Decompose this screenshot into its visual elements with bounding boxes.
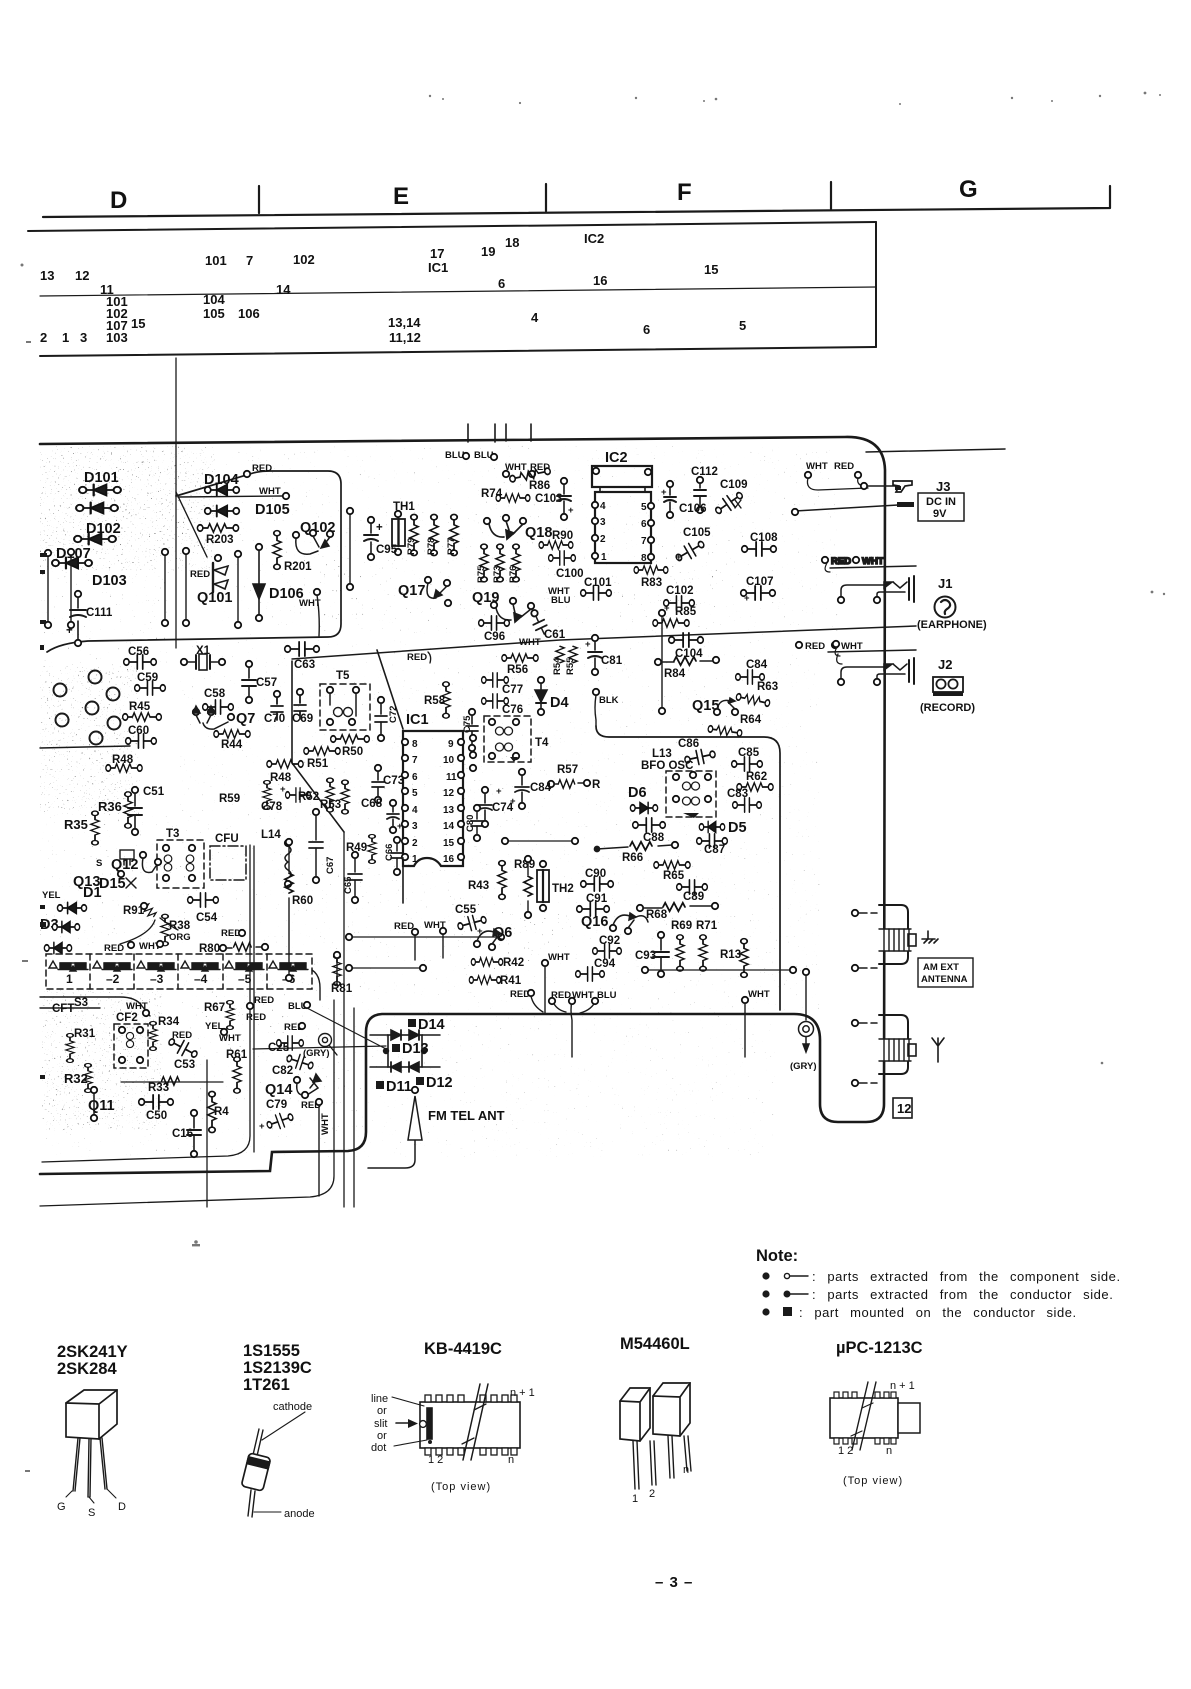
svg-text:R44: R44 (221, 739, 243, 751)
connector J2 record jack (828, 641, 916, 685)
svg-text:11: 11 (446, 772, 457, 783)
svg-text:5: 5 (641, 502, 647, 513)
svg-text:R85: R85 (675, 606, 697, 618)
svg-text:(Top view): (Top view) (431, 1481, 491, 1493)
svg-text:C56: C56 (128, 646, 149, 658)
label D11 (376, 1081, 384, 1089)
svg-text:CFT: CFT (52, 1003, 74, 1015)
svg-text:: parts extracted from the co: : parts extracted from the component sid… (812, 1269, 1121, 1284)
svg-text:R45: R45 (129, 701, 151, 713)
transformer L13 BFO coil (666, 771, 716, 818)
resistor R42 (471, 958, 502, 966)
legend bullet 3 (762, 1308, 769, 1315)
diode bridge D11-D14 (370, 1030, 440, 1072)
svg-text:ORG: ORG (169, 932, 191, 943)
wire thin bottom line (42, 845, 250, 1162)
svg-text:anode: anode (284, 1508, 315, 1520)
wire vertical x207 (206, 1060, 208, 1207)
svg-text:dot: dot (371, 1442, 386, 1454)
resistor R66 (594, 842, 678, 852)
ruler tick E/F (545, 184, 547, 211)
svg-text:WHT: WHT (806, 461, 828, 472)
svg-text:R71: R71 (696, 920, 718, 932)
svg-text:D6: D6 (628, 785, 647, 801)
svg-text:7: 7 (246, 253, 253, 268)
package M54460L drawing (620, 1383, 691, 1489)
svg-text:1 2: 1 2 (838, 1445, 853, 1457)
svg-text:C77: C77 (502, 684, 523, 696)
diode D5 (699, 822, 724, 833)
label D12 (416, 1077, 424, 1085)
svg-text:8: 8 (641, 553, 647, 564)
svg-text:1: 1 (62, 330, 69, 345)
svg-text:C78: C78 (261, 801, 283, 813)
wire slant to Q101 (176, 492, 207, 557)
resistor R77 (450, 514, 458, 555)
svg-text:12: 12 (75, 268, 89, 283)
svg-text:D101: D101 (84, 470, 119, 486)
svg-text:C57: C57 (256, 677, 277, 689)
svg-text:15: 15 (131, 316, 145, 331)
resistor R73 (496, 544, 504, 582)
svg-text:Q7: Q7 (236, 711, 255, 727)
svg-text:D105: D105 (255, 502, 290, 518)
svg-text:J2: J2 (938, 657, 952, 672)
package uPC-1213C drawing (830, 1382, 920, 1450)
svg-text:(Top view): (Top view) (843, 1475, 903, 1487)
wire verticals left of island (48, 555, 71, 622)
svg-text:RED: RED (254, 995, 274, 1006)
svg-text:C53: C53 (174, 1059, 195, 1071)
resistor R48b (267, 760, 303, 768)
svg-text:S3: S3 (74, 997, 88, 1009)
svg-text:T4: T4 (535, 737, 549, 749)
resistor R65 (654, 861, 690, 869)
svg-text:Q18: Q18 (525, 525, 552, 541)
wire vertical x662 (661, 616, 663, 708)
KB-4419C pin1 callouts (371, 1393, 427, 1454)
svg-text:BLU: BLU (597, 990, 617, 1001)
svg-text:C102: C102 (666, 585, 694, 597)
svg-text:2: 2 (412, 838, 418, 849)
svg-text:WHT: WHT (748, 989, 770, 1000)
svg-text:D: D (110, 187, 127, 214)
svg-text:C54: C54 (196, 912, 218, 924)
svg-text:RED: RED (407, 652, 427, 663)
resistor R78 (430, 514, 438, 555)
svg-text:R41: R41 (500, 975, 522, 987)
svg-text:Q17: Q17 (398, 583, 425, 599)
capacitor C50 (139, 1095, 174, 1109)
wire rows mid (346, 934, 796, 1057)
wire under strip (40, 970, 320, 1016)
svg-text:C112: C112 (691, 466, 718, 478)
capacitor C88 (633, 818, 666, 832)
svg-text:C100: C100 (556, 568, 584, 580)
svg-text:13: 13 (443, 805, 455, 816)
wire lower thin line (40, 1000, 334, 1206)
svg-text:12: 12 (443, 788, 455, 799)
capacitor C87 (697, 834, 728, 848)
svg-text:R32: R32 (64, 1071, 88, 1086)
svg-text:R83: R83 (641, 577, 662, 589)
svg-text:C63: C63 (294, 659, 315, 671)
svg-text:R62: R62 (746, 771, 767, 783)
svg-text:F: F (677, 179, 692, 206)
svg-text:102: 102 (293, 252, 315, 267)
svg-text:Q16: Q16 (581, 914, 608, 930)
svg-text:R54: R54 (552, 657, 563, 675)
svg-text:15: 15 (704, 262, 718, 277)
svg-text:R34: R34 (158, 1016, 180, 1028)
svg-text:6: 6 (412, 772, 418, 783)
svg-text:R53: R53 (320, 799, 341, 811)
svg-text:CF2: CF2 (116, 1012, 138, 1024)
svg-text:1: 1 (412, 854, 418, 865)
scan toner noise patches (40, 446, 740, 1130)
svg-text:R76: R76 (508, 566, 519, 583)
diode D101b (76, 503, 118, 514)
capacitor C95 (364, 517, 383, 560)
svg-text:16: 16 (593, 273, 607, 288)
svg-text:D5: D5 (728, 820, 747, 836)
svg-text:RED: RED (172, 1030, 192, 1041)
svg-text:L14: L14 (261, 829, 281, 841)
svg-text:R: R (592, 779, 601, 791)
svg-text:C86: C86 (678, 738, 699, 750)
svg-text:101: 101 (205, 253, 227, 268)
svg-text:RED: RED (246, 1012, 266, 1023)
svg-text:R73: R73 (492, 566, 503, 583)
svg-text:R48: R48 (270, 772, 292, 784)
svg-text:C70: C70 (264, 713, 285, 725)
capacitor C54 (188, 893, 219, 907)
svg-text:C84: C84 (746, 659, 768, 671)
label D14 (408, 1019, 416, 1027)
table top edge (28, 222, 876, 231)
svg-text:RED: RED (190, 569, 210, 580)
svg-text:T3: T3 (166, 828, 179, 840)
svg-text:–2: –2 (106, 972, 120, 986)
resistor R84 (655, 657, 719, 665)
svg-text:2: 2 (600, 534, 606, 545)
svg-text:R65: R65 (663, 870, 685, 882)
svg-text:–4: –4 (194, 972, 208, 986)
svg-text:RED: RED (104, 943, 124, 954)
svg-text:BLK: BLK (599, 695, 619, 706)
svg-text:C51: C51 (143, 786, 165, 798)
svg-text:WHT: WHT (259, 486, 281, 497)
board top edge and right edge (40, 437, 885, 1174)
svg-text:14: 14 (443, 821, 455, 832)
svg-text:FM TEL ANT: FM TEL ANT (428, 1108, 505, 1123)
svg-text:C107: C107 (746, 576, 774, 588)
svg-text:Note:: Note: (756, 1247, 798, 1265)
svg-text:cathode: cathode (273, 1401, 312, 1413)
svg-text:6: 6 (643, 322, 650, 337)
svg-text:R203: R203 (206, 534, 234, 546)
svg-text:+: + (496, 786, 502, 797)
capacitor C57 (242, 661, 256, 703)
svg-text:IC2: IC2 (605, 450, 628, 466)
AM EXT ANTENNA label box (918, 958, 973, 987)
svg-text:8: 8 (412, 739, 418, 750)
capacitor C89 (677, 880, 708, 894)
svg-text:or: or (377, 1430, 387, 1442)
svg-text:AM EXT: AM EXT (923, 962, 959, 973)
svg-text:R51: R51 (307, 758, 329, 770)
svg-text:R59: R59 (219, 793, 240, 805)
svg-text:R31: R31 (74, 1028, 96, 1040)
connector J3 DC IN 9V (792, 481, 964, 521)
svg-text:C55: C55 (455, 904, 477, 916)
label D13 (392, 1044, 400, 1052)
capacitor C111 (66, 591, 86, 646)
ruler line (43, 186, 1110, 217)
svg-text:+: + (568, 505, 574, 516)
svg-text:6: 6 (498, 276, 505, 291)
svg-text:G: G (959, 176, 978, 203)
ground symbol (922, 931, 938, 943)
antenna symbol (932, 1038, 944, 1062)
svg-text:1T261: 1T261 (243, 1376, 290, 1394)
svg-text:C88: C88 (643, 832, 665, 844)
svg-text:15: 15 (443, 838, 455, 849)
dust specks (21, 92, 1166, 1472)
svg-text:R79: R79 (406, 538, 417, 555)
svg-text:R13: R13 (720, 949, 741, 961)
ruler tick D/E (258, 186, 260, 213)
svg-text:R60: R60 (292, 895, 313, 907)
svg-text:7: 7 (641, 536, 647, 547)
svg-text:R84: R84 (664, 668, 686, 680)
diode D4 (535, 677, 547, 715)
svg-text:T5: T5 (336, 670, 350, 682)
svg-text:C68: C68 (361, 798, 383, 810)
svg-text:11,12: 11,12 (389, 330, 421, 345)
svg-text:IC2: IC2 (584, 231, 604, 246)
svg-text:J1: J1 (938, 576, 952, 591)
resistor R75 (480, 544, 488, 582)
svg-text:105: 105 (203, 306, 225, 321)
svg-text:106: 106 (238, 306, 260, 321)
wire BLU slant to bridge (253, 1008, 388, 1050)
svg-text:1S1555: 1S1555 (243, 1342, 300, 1360)
svg-text:n: n (886, 1445, 892, 1457)
svg-text:CFU: CFU (215, 833, 239, 845)
svg-text:C96: C96 (484, 631, 505, 643)
svg-text:R66: R66 (622, 852, 643, 864)
svg-text:R63: R63 (757, 681, 778, 693)
ruler tick F/G (830, 182, 832, 209)
svg-text:D102: D102 (86, 521, 121, 537)
island outline around D104 group (47, 471, 341, 652)
svg-text:104: 104 (203, 292, 225, 307)
diode D106 (253, 544, 265, 621)
capacitor C53 (166, 1035, 200, 1062)
svg-text:YEL: YEL (42, 890, 61, 901)
svg-text:WHT: WHT (862, 556, 884, 567)
resistor R55 (569, 646, 577, 663)
svg-text:R69: R69 (671, 920, 692, 932)
svg-text:D11: D11 (386, 1079, 412, 1095)
svg-text:C82: C82 (272, 1065, 293, 1077)
svg-text:(RECORD): (RECORD) (920, 702, 975, 714)
svg-text:C94: C94 (594, 958, 616, 970)
svg-text:+: + (676, 552, 682, 563)
wire outline BFO region (596, 726, 780, 1010)
svg-text:R201: R201 (284, 561, 312, 573)
svg-text:ANTENNA: ANTENNA (921, 974, 968, 985)
svg-text:(GRY): (GRY) (303, 1048, 330, 1059)
svg-text:C103: C103 (535, 493, 563, 505)
wire row above R43 (508, 840, 572, 842)
svg-text:+: + (280, 784, 286, 795)
svg-text:12: 12 (897, 1101, 911, 1116)
svg-text:14: 14 (276, 282, 291, 297)
svg-text:L13: L13 (652, 748, 672, 760)
svg-text:C91: C91 (586, 893, 608, 905)
svg-text:C76: C76 (502, 704, 523, 716)
svg-text:R55: R55 (565, 657, 576, 675)
svg-text:C61: C61 (544, 629, 566, 641)
capacitor C63 (285, 642, 320, 656)
svg-text:D103: D103 (92, 573, 127, 589)
svg-text:C90: C90 (585, 868, 606, 880)
svg-text:16: 16 (443, 854, 455, 865)
resistor R203 (197, 524, 238, 532)
svg-text:D15: D15 (99, 876, 126, 892)
svg-text:–5: –5 (238, 972, 252, 986)
svg-text:4: 4 (412, 805, 418, 816)
pad circles left area (54, 671, 121, 745)
svg-text:Q11: Q11 (88, 1098, 115, 1114)
package diode drawing (241, 1401, 314, 1520)
svg-text:C105: C105 (683, 527, 711, 539)
svg-text:(GRY): (GRY) (790, 1061, 817, 1072)
wire GRY (803, 969, 809, 975)
svg-text:or: or (377, 1405, 387, 1417)
svg-text:+: + (259, 1121, 265, 1132)
svg-text:WHT: WHT (219, 1033, 241, 1044)
wire stubs above board edge (468, 424, 531, 442)
svg-text:: parts extracted from the co: : parts extracted from the conductor sid… (812, 1287, 1113, 1302)
resistor R201 (273, 531, 281, 570)
antenna FM TEL ANT (412, 1087, 418, 1093)
capacitor C81 (585, 635, 602, 675)
svg-text:1 2: 1 2 (428, 1454, 443, 1466)
svg-text:µPC-1213C: µPC-1213C (836, 1339, 923, 1357)
capacitor C78 (286, 788, 311, 802)
svg-text:C58: C58 (204, 688, 226, 700)
svg-text:RED: RED (252, 463, 272, 474)
svg-text:3: 3 (80, 330, 87, 345)
table right edge (875, 222, 877, 347)
AM external antenna coil (852, 905, 938, 971)
wire verticals in island (165, 514, 350, 622)
record icon (933, 677, 963, 696)
svg-text:C84: C84 (530, 782, 552, 794)
svg-text:R43: R43 (468, 880, 489, 892)
svg-text:C80: C80 (465, 815, 476, 832)
svg-text:6: 6 (641, 519, 647, 530)
wire outline right of T5 (377, 650, 403, 903)
transformer T4 (484, 716, 531, 762)
svg-text:n + 1: n + 1 (890, 1380, 915, 1392)
wire WHT under D104 (178, 496, 283, 497)
svg-text:n: n (508, 1454, 514, 1466)
svg-text:WHT: WHT (320, 1113, 331, 1135)
resistor R76 (512, 544, 520, 582)
svg-text:R42: R42 (503, 957, 524, 969)
svg-text:2: 2 (40, 330, 47, 345)
svg-text:D104: D104 (204, 472, 239, 488)
svg-text:18: 18 (505, 235, 519, 250)
wire vertical from table to board (175, 358, 177, 648)
svg-text:C111: C111 (86, 607, 113, 619)
svg-text:Q101: Q101 (197, 590, 232, 606)
svg-text:R75: R75 (476, 565, 487, 583)
svg-text:C106: C106 (679, 503, 707, 515)
svg-text:KB-4419C: KB-4419C (424, 1340, 502, 1358)
resistor R86 (509, 467, 551, 484)
svg-text:IC1: IC1 (428, 260, 448, 275)
svg-text:+: + (661, 487, 667, 498)
svg-text:Q14: Q14 (265, 1082, 292, 1098)
svg-text:RED: RED (834, 461, 854, 472)
svg-text:R77: R77 (446, 538, 457, 555)
svg-text:C74: C74 (492, 802, 514, 814)
resistor R79 (410, 514, 418, 555)
svg-text:R67: R67 (204, 1002, 225, 1014)
label RED WHT mid (796, 642, 802, 648)
svg-text:J3: J3 (936, 479, 950, 494)
svg-text:WHT: WHT (841, 641, 863, 652)
svg-text:+: + (585, 639, 591, 650)
wire top right line to J3 (866, 449, 1005, 452)
svg-text:9: 9 (448, 739, 454, 750)
svg-text:BLU: BLU (445, 450, 465, 461)
capacitor C96 (479, 616, 510, 630)
svg-text:C79: C79 (266, 1099, 287, 1111)
svg-text:TH2: TH2 (552, 883, 574, 895)
svg-text:: part mounted on the conduct: : part mounted on the conductor side. (799, 1305, 1077, 1320)
legend bullet 2 (762, 1290, 769, 1297)
wire mid horizontal line across board (292, 626, 916, 659)
svg-text:n + 1: n + 1 (510, 1387, 535, 1399)
svg-text:S: S (96, 858, 102, 869)
svg-text:R81: R81 (331, 983, 353, 995)
svg-text:R36: R36 (98, 799, 122, 814)
svg-text:C65: C65 (343, 876, 354, 894)
resistor R38 (161, 914, 169, 945)
svg-text:2SK284: 2SK284 (57, 1360, 117, 1378)
svg-text:n: n (683, 1464, 689, 1476)
thermistor TH2 (537, 861, 549, 911)
svg-text:(EARPHONE): (EARPHONE) (917, 619, 987, 631)
svg-text:C73: C73 (383, 775, 404, 787)
svg-text:R64: R64 (740, 714, 762, 726)
svg-text:RED: RED (394, 921, 414, 932)
wire row R48 (40, 746, 130, 748)
pads between IC1 and T4 (470, 735, 476, 741)
svg-text:R80: R80 (199, 943, 220, 955)
svg-text:R78: R78 (426, 538, 437, 555)
svg-text:E: E (393, 183, 409, 210)
svg-text:C67: C67 (325, 857, 336, 874)
resistor R54 (556, 646, 564, 663)
svg-text:RED: RED (805, 641, 825, 652)
